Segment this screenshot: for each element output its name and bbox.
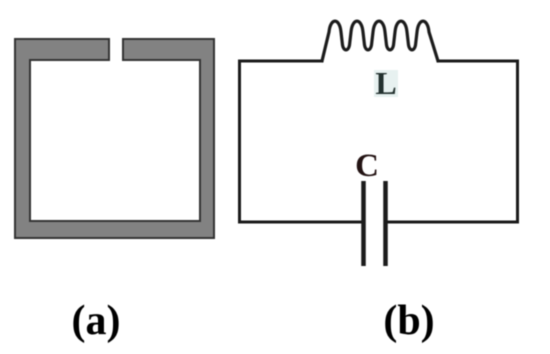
svg-text:L: L <box>375 65 396 101</box>
wire: left vertical <box>238 61 241 222</box>
label C <box>355 148 379 184</box>
svg-text:C: C <box>355 148 379 184</box>
wire loop of LC circuit (b) <box>240 61 518 222</box>
svg-text:(a): (a) <box>72 298 121 344</box>
wire: right vertical <box>516 61 519 222</box>
label (b) <box>383 298 434 344</box>
wire: bottom right segment <box>388 221 518 224</box>
wire: bottom left segment <box>240 221 362 224</box>
split-ring resonator (a) <box>15 39 214 238</box>
wire: top right segment <box>438 60 518 63</box>
wire: top left segment <box>240 60 323 63</box>
inductor L coil <box>322 21 438 61</box>
capacitor C plates <box>364 181 386 266</box>
label (a) <box>72 298 121 344</box>
svg-text:(b): (b) <box>383 298 434 344</box>
label L <box>374 65 398 101</box>
